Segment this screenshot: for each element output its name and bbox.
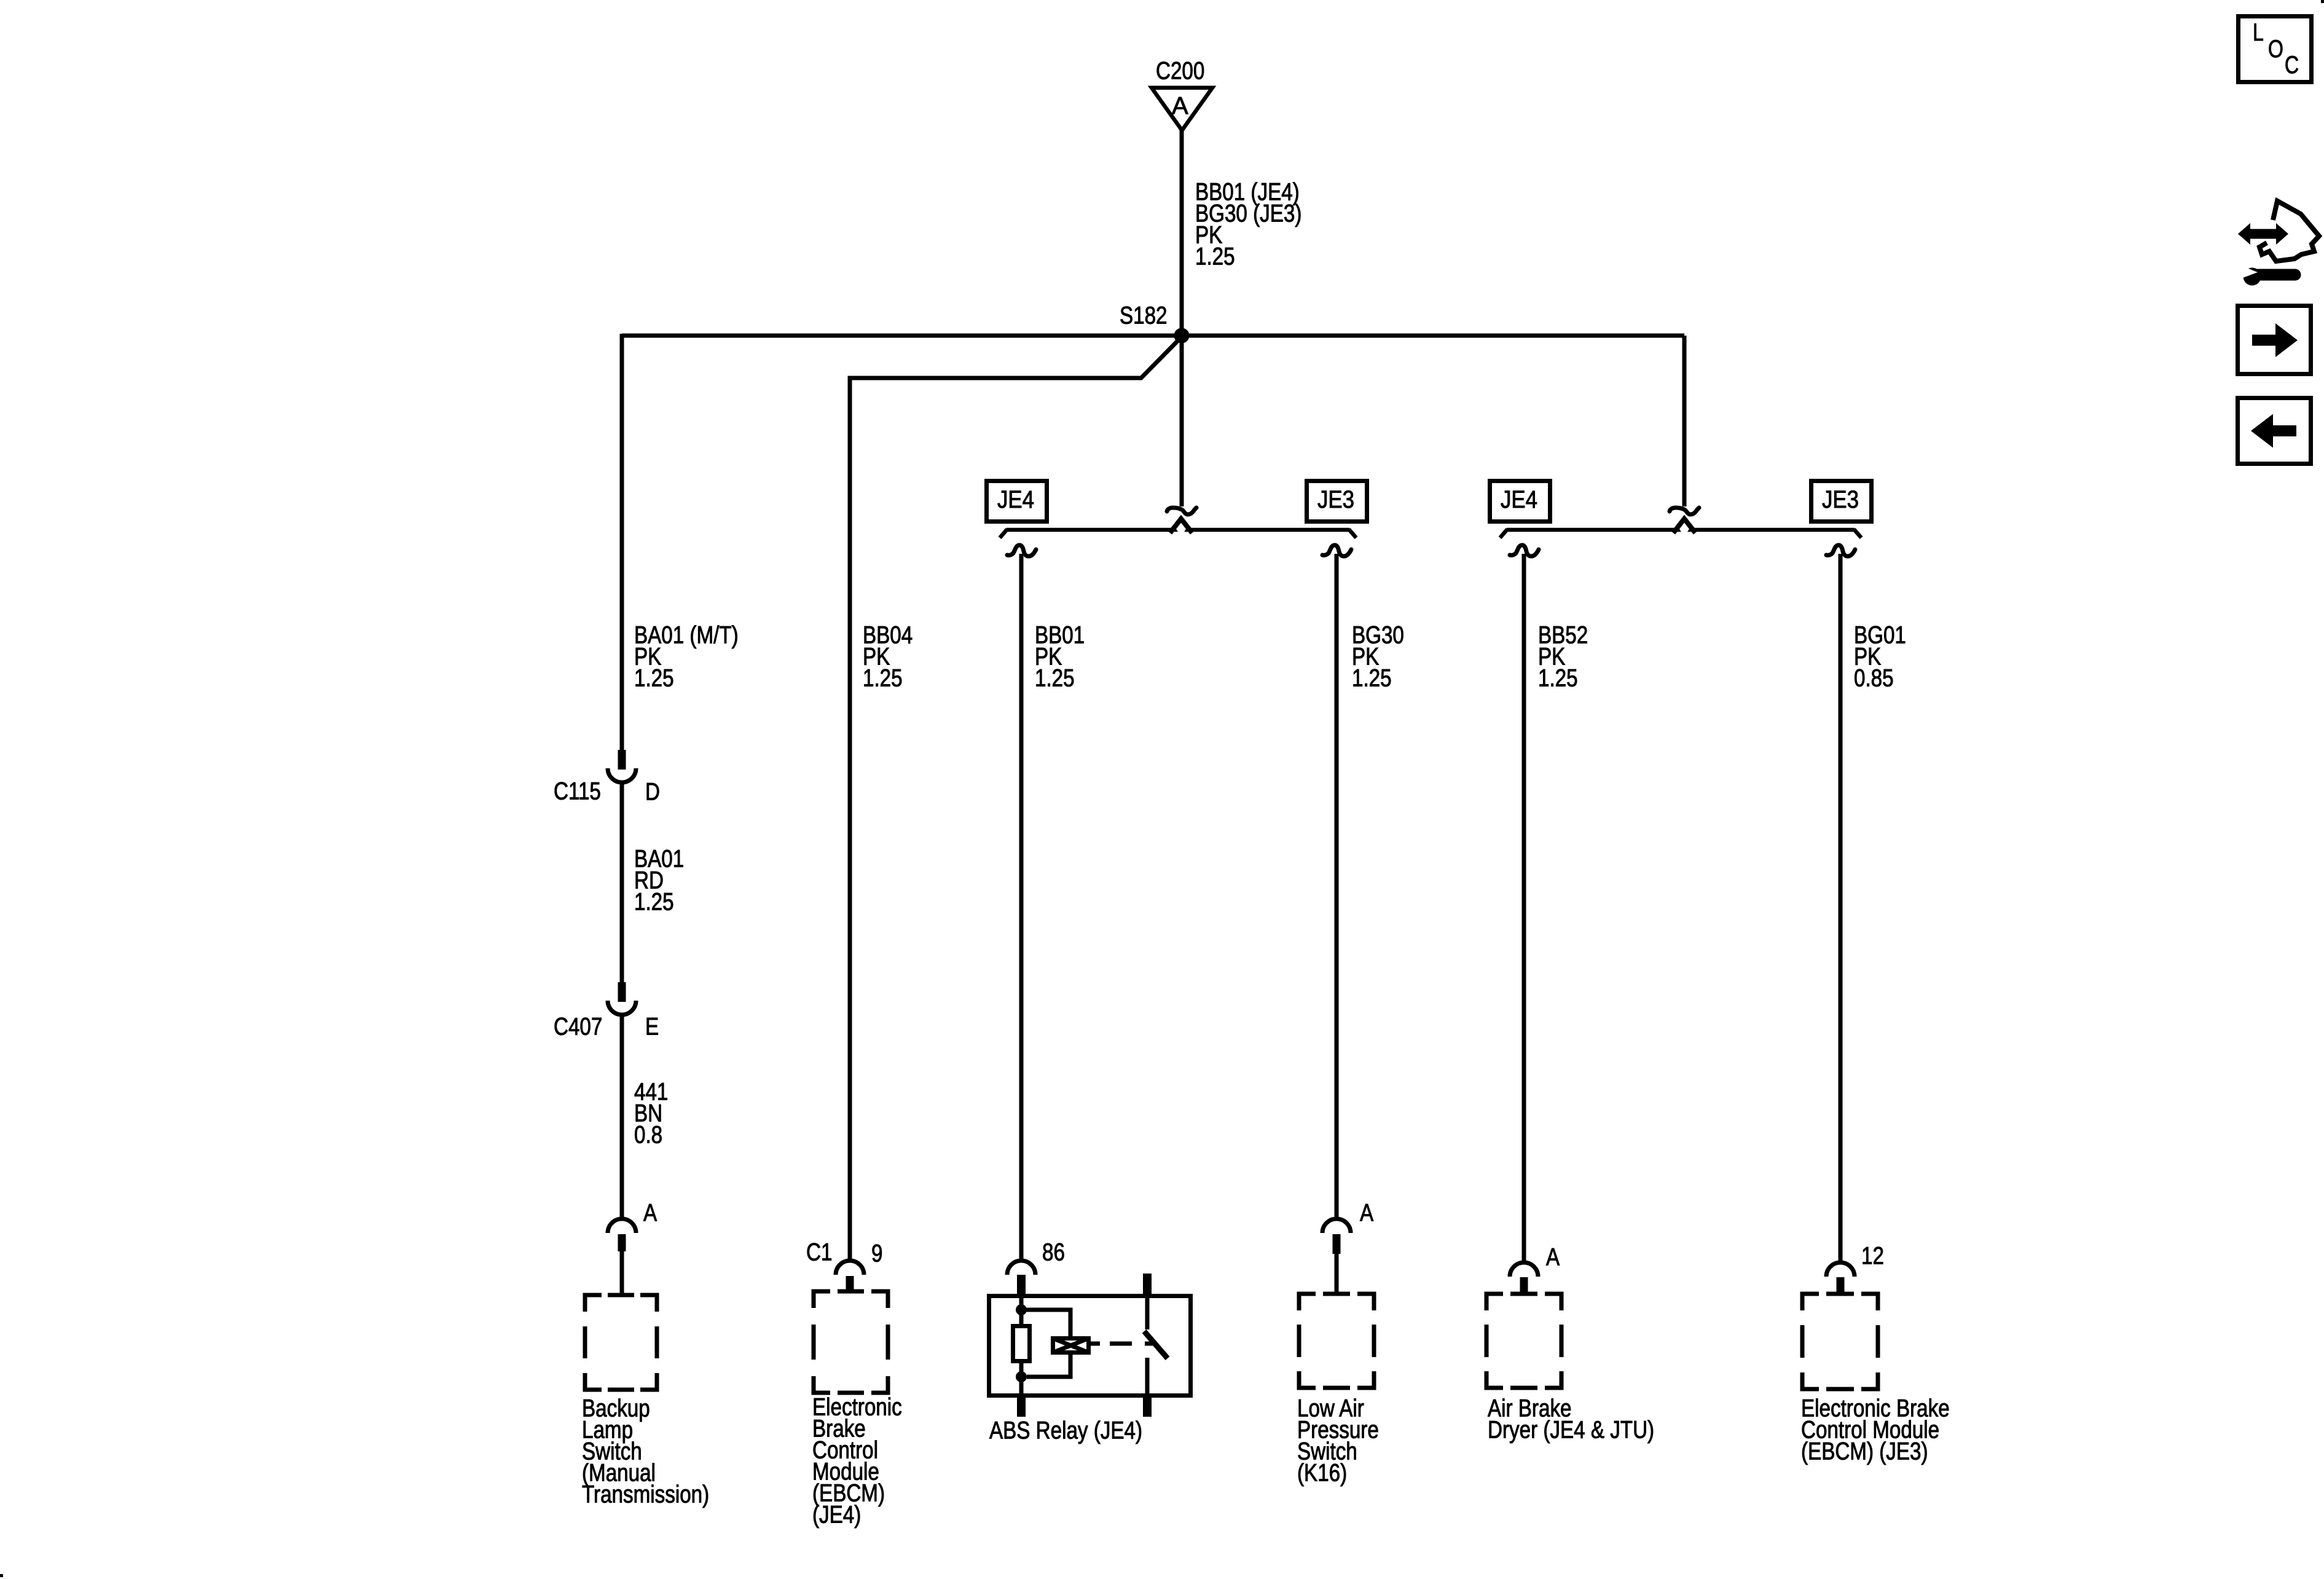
harness JE4 box (right)	[1490, 481, 1550, 522]
svg-text:JE4: JE4	[997, 486, 1034, 513]
air brake dryer (component outline)	[1486, 1294, 1561, 1388]
relay coil branch upper	[1021, 1310, 1070, 1336]
svg-text:C1: C1	[806, 1238, 832, 1266]
svg-text:Low AirPressureSwitch(K16): Low AirPressureSwitch(K16)	[1297, 1395, 1379, 1487]
relay wire to pin 85	[1019, 1377, 1024, 1398]
harness spread line left	[1007, 528, 1349, 532]
svg-text:D: D	[645, 778, 660, 806]
svg-text:12: 12	[1861, 1242, 1884, 1270]
low air pressure switch connector pin	[1333, 1234, 1341, 1254]
svg-text:BG01PK0.85: BG01PK0.85	[1854, 621, 1906, 692]
wire from S182 bus down to right harness split	[1682, 336, 1687, 506]
relay linkage dash	[1110, 1342, 1132, 1346]
relay internal wire	[1019, 1297, 1024, 1310]
svg-text:C: C	[2285, 51, 2299, 79]
harness break at right drop	[1670, 508, 1699, 514]
relay resistor	[1013, 1326, 1030, 1361]
relay switch upper contact	[1145, 1297, 1150, 1329]
wire BA01 RD between C115 and C407	[620, 782, 624, 983]
wire BG30 PK to low air pressure switch	[1335, 554, 1339, 1219]
splice S182 junction dot	[1174, 328, 1190, 344]
relay coil	[1053, 1339, 1089, 1353]
svg-text:BB52PK1.25: BB52PK1.25	[1538, 621, 1588, 692]
connector C200 triangle	[1152, 88, 1212, 130]
svg-text:BG30PK1.25: BG30PK1.25	[1352, 621, 1404, 692]
wire BG01 PK to EBCM JE3	[1839, 554, 1843, 1262]
relay linkage dash 2	[1145, 1342, 1156, 1346]
wire BB52 PK to air brake dryer	[1522, 554, 1526, 1262]
LOC navigation box	[2239, 17, 2312, 82]
relay switch lower contact	[1145, 1358, 1150, 1398]
backup lamp switch (component outline)	[585, 1295, 657, 1390]
back arrow button	[2238, 398, 2311, 464]
wire BB04 PK from S182 to EBCM JE4	[850, 337, 1182, 1261]
svg-text:ElectronicBrakeControlModule(E: ElectronicBrakeControlModule(EBCM)(JE4)	[812, 1393, 902, 1529]
connector view / repair icon (arrow, connector outline, wrench)	[2235, 201, 2319, 286]
svg-text:BA01 (M/T)PK1.25: BA01 (M/T)PK1.25	[634, 621, 739, 692]
harness JE4 box (left)	[987, 481, 1047, 522]
harness break BB52 wire	[1510, 545, 1539, 556]
relay switch blade	[1144, 1331, 1168, 1358]
svg-text:BB04PK1.25: BB04PK1.25	[863, 621, 913, 692]
svg-text:BB01PK1.25: BB01PK1.25	[1035, 621, 1085, 692]
ABS relay connector terminal 86	[1007, 1261, 1035, 1275]
relay wire resistor to dot	[1019, 1361, 1024, 1377]
air brake dryer connector pin	[1520, 1277, 1528, 1294]
ABS relay pin 85 (bottom)	[1017, 1398, 1026, 1417]
low air pressure switch connector terminal A	[1322, 1219, 1351, 1233]
svg-text:A: A	[1172, 93, 1188, 120]
electronic brake control module JE4 (component outline)	[814, 1291, 888, 1393]
EBCM JE3 connector pin	[1837, 1277, 1845, 1294]
wire BB01 PK to ABS relay	[1019, 554, 1024, 1260]
svg-text:441BN0.8: 441BN0.8	[634, 1078, 668, 1149]
svg-text:BackupLampSwitch(ManualTransmi: BackupLampSwitch(ManualTransmission)	[582, 1395, 709, 1508]
svg-text:A: A	[643, 1199, 658, 1227]
svg-text:9: 9	[871, 1240, 882, 1267]
ABS relay pin 30 (top)	[1143, 1274, 1152, 1298]
ABS relay pin 86	[1017, 1275, 1026, 1298]
harness break at S182 drop	[1167, 508, 1196, 514]
relay coil stub	[1088, 1342, 1100, 1346]
svg-text:BB01 (JE4)BG30 (JE3)PK1.25: BB01 (JE4)BG30 (JE3)PK1.25	[1195, 178, 1301, 270]
wire from S182 down to harness split	[1180, 336, 1184, 506]
connector C115 male pin	[618, 750, 626, 770]
lead into low air pressure switch	[1335, 1254, 1339, 1294]
page corner mark top-right	[2321, 0, 2324, 3]
EBCM JE4 connector terminal 9	[836, 1261, 864, 1275]
svg-text:S182: S182	[1120, 302, 1168, 329]
svg-text:JE4: JE4	[1501, 486, 1537, 513]
connector C115 female terminal	[608, 768, 636, 782]
relay internal junction (bottom)	[1016, 1371, 1027, 1382]
backup lamp switch connector terminal A	[608, 1219, 636, 1233]
harness break BB01 wire	[1007, 545, 1036, 556]
forward arrow button	[2238, 306, 2311, 374]
svg-text:L: L	[2253, 18, 2264, 46]
svg-text:O: O	[2268, 35, 2283, 63]
wire BA01 PK down-left branch	[620, 334, 624, 751]
backup lamp switch connector pin	[618, 1234, 626, 1251]
svg-text:86: 86	[1042, 1238, 1065, 1266]
relay coil branch lower	[1027, 1353, 1070, 1377]
harness JE3 box (left)	[1307, 481, 1367, 522]
svg-text:C115: C115	[554, 778, 601, 805]
svg-text:C200: C200	[1156, 57, 1204, 85]
svg-text:JE3: JE3	[1317, 486, 1354, 513]
svg-text:ABS Relay (JE4): ABS Relay (JE4)	[989, 1417, 1142, 1444]
svg-text:Air BrakeDryer (JE4 & JTU): Air BrakeDryer (JE4 & JTU)	[1488, 1395, 1654, 1444]
svg-text:E: E	[645, 1013, 659, 1041]
lead into backup lamp switch	[620, 1251, 624, 1295]
low air pressure switch (component outline)	[1299, 1294, 1374, 1388]
air brake dryer connector terminal A	[1510, 1262, 1538, 1277]
harness break BG30 wire	[1322, 545, 1351, 556]
electronic brake control module JE3 (component outline)	[1802, 1294, 1878, 1389]
harness break BG01 wire	[1826, 545, 1855, 556]
page corner mark bottom-left	[0, 1574, 3, 1577]
svg-text:A: A	[1546, 1243, 1560, 1271]
main horizontal bus wire from S182	[622, 334, 1684, 338]
EBCM JE3 connector terminal 12	[1826, 1262, 1855, 1277]
svg-text:BA01RD1.25: BA01RD1.25	[634, 845, 684, 916]
ABS relay pin 87 (bottom)	[1143, 1398, 1152, 1417]
relay wire dot to resistor	[1019, 1310, 1024, 1326]
harness spread line right	[1507, 528, 1855, 532]
harness JE3 box (right)	[1812, 481, 1872, 522]
wire BB01/BG30 PK from C200 to S182	[1180, 130, 1184, 336]
EBCM JE4 connector pin	[846, 1276, 854, 1291]
ABS relay K box	[989, 1296, 1191, 1396]
svg-text:Electronic BrakeControl Module: Electronic BrakeControl Module(EBCM) (JE…	[1801, 1395, 1950, 1465]
wire 441 BN to backup lamp switch	[620, 1014, 624, 1219]
svg-text:A: A	[1360, 1199, 1374, 1227]
connector C407 female terminal	[608, 1001, 636, 1015]
svg-text:JE3: JE3	[1822, 486, 1859, 513]
connector C407 male pin	[618, 982, 626, 1002]
relay internal junction (top)	[1016, 1304, 1027, 1315]
svg-text:C407: C407	[554, 1013, 602, 1041]
